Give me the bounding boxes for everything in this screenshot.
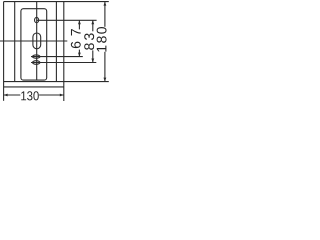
wire dimension line 130 left [4,94,21,96]
node terminal disc 2 [33,61,40,65]
node arrow left dim 130 [4,94,8,97]
wire horizontal centerline through slot [0,40,67,42]
wire dimension line 180 upper [104,2,106,27]
wire extension line from terminal disc 2 [31,62,96,64]
wire rounded recess outline [21,9,47,80]
wire outer fixture top edge + extension to 180 dim [4,1,109,3]
wire dimension line 67 [78,20,80,29]
node arrow up dim 83 [91,20,94,24]
wire outer fixture outline left side + extension to 130 dim [3,2,5,101]
node label 180 [97,27,107,52]
wire extension line from terminal disc 1 [31,56,83,58]
wire mounting plate right edge [55,2,57,82]
node arrow down dim 67 [78,53,81,57]
node label 83 [84,33,94,49]
wire extension line from top hole center [37,19,97,21]
node label 130 [21,91,39,100]
node top mounting hole [35,17,39,22]
node keyhole slot [33,33,41,49]
node arrow up dim 180 [104,2,107,6]
wire outer fixture bottom edge [4,86,64,88]
wire dimension line 83 [92,20,94,31]
node arrow right dim 130 [60,94,64,97]
wire outer fixture outline right side + extension to 130 dim [63,2,65,101]
wire dimension line 130 right [39,94,64,96]
wire vertical centerline [36,2,38,81]
wire dimension line 180 lower [104,52,106,82]
node arrow down dim 180 [104,78,107,82]
wire mounting plate left edge [14,2,16,82]
wire internal fold line + extension to 180 dim [4,81,109,83]
node arrow down dim 83 [91,59,94,63]
node terminal disc 1 [33,55,40,58]
node arrow up dim 67 [78,20,81,24]
node label 67 [71,29,81,48]
